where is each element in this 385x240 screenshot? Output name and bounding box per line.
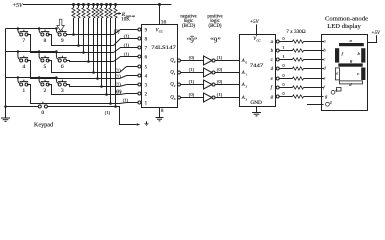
svg-text:“9”: “9” bbox=[210, 36, 220, 45]
resistor 330ohm segment b bbox=[293, 49, 304, 52]
wire overbar bbox=[190, 35, 194, 37]
svg-text:A: A bbox=[241, 59, 245, 64]
wire key8 output drop bbox=[48, 35, 79, 46]
wire dp stub bbox=[307, 104, 324, 106]
svg-text:(1): (1) bbox=[115, 67, 121, 72]
decimal point square bbox=[337, 88, 342, 92]
switch key 1 bbox=[20, 81, 29, 83]
switch key 6 bbox=[58, 57, 67, 59]
svg-text:9: 9 bbox=[61, 38, 64, 44]
wire resistor to display d bbox=[304, 68, 324, 70]
inverter U3 bbox=[204, 80, 213, 89]
svg-text:10K: 10K bbox=[121, 18, 130, 23]
wire segment e bbox=[279, 78, 292, 80]
pin output Q0 bubble bbox=[178, 59, 181, 62]
op IC 7447 decoder bbox=[240, 35, 276, 107]
svg-text:LED display: LED display bbox=[327, 23, 361, 30]
svg-text:3: 3 bbox=[246, 97, 248, 101]
node junction line 8 bbox=[77, 44, 80, 47]
wire resistor to display g bbox=[304, 96, 324, 98]
svg-text:Keypad: Keypad bbox=[34, 121, 54, 128]
wire inverter 0 out bbox=[215, 60, 240, 62]
wire 147 GND pin 8 bbox=[159, 108, 161, 118]
resistor 330ohm segment e bbox=[293, 77, 304, 80]
svg-text:0: 0 bbox=[282, 63, 285, 68]
pin input 8 bubble bbox=[138, 37, 141, 40]
resistor Rpullup9 10K bbox=[110, 5, 112, 8]
svg-text:b: b bbox=[271, 49, 274, 54]
wire encoder input line 4 bbox=[97, 18, 99, 79]
svg-text:g: g bbox=[325, 94, 328, 99]
segment d off bbox=[339, 81, 362, 84]
svg-text:(1): (1) bbox=[105, 110, 111, 115]
resistor Rpullup1 10K bbox=[73, 5, 75, 8]
pin input 3 bubble bbox=[138, 83, 141, 86]
svg-text:3: 3 bbox=[145, 83, 148, 88]
ground keypad bbox=[1, 117, 10, 119]
wire encoder input line 6 bbox=[88, 18, 90, 62]
svg-text:7447: 7447 bbox=[250, 63, 264, 69]
wire keypad ground bus bbox=[5, 29, 7, 119]
wire encoder input line 1 bbox=[110, 18, 112, 104]
svg-text:4: 4 bbox=[22, 64, 25, 70]
svg-text:(BCD): (BCD) bbox=[208, 24, 221, 29]
wire key9 output bbox=[67, 34, 74, 36]
wire keypad row bus bbox=[6, 77, 57, 79]
wire resistor to display c bbox=[304, 59, 324, 61]
svg-text:a: a bbox=[323, 39, 326, 44]
node junction line 4 bbox=[96, 77, 99, 80]
svg-text:c: c bbox=[357, 71, 359, 76]
inverter U4 bbox=[204, 93, 213, 102]
arrow key0 wire end bbox=[137, 123, 141, 126]
wire 74LS147 Vcc pin 16 bbox=[159, 5, 161, 25]
svg-text:(1): (1) bbox=[124, 52, 130, 57]
node row bus dots bbox=[17, 76, 58, 79]
ground 7447 bbox=[252, 112, 261, 114]
svg-text:7: 7 bbox=[22, 38, 25, 44]
wire key3 output drop bbox=[66, 85, 102, 87]
pin input 4 bubble bbox=[138, 74, 141, 77]
svg-text:4: 4 bbox=[145, 74, 148, 79]
resistor Rpullup5 10K bbox=[93, 5, 95, 8]
resistor 330ohm segment f bbox=[293, 86, 304, 89]
segment b lit bbox=[361, 48, 365, 62]
svg-text:(1): (1) bbox=[124, 43, 130, 48]
LED symbol upper bbox=[331, 90, 335, 94]
svg-text:7 x 330Ω: 7 x 330Ω bbox=[286, 29, 306, 35]
svg-text:“9”: “9” bbox=[187, 36, 197, 45]
wire +5V rail bbox=[23, 4, 172, 6]
pin input 7 bubble bbox=[138, 46, 141, 49]
svg-text:5: 5 bbox=[44, 64, 47, 70]
svg-text:CC: CC bbox=[257, 38, 262, 42]
svg-text:(1): (1) bbox=[123, 98, 129, 103]
svg-text:(1): (1) bbox=[115, 81, 121, 86]
svg-text:0: 0 bbox=[282, 36, 285, 41]
switch key 7 bbox=[20, 31, 29, 33]
segment a lit bbox=[339, 43, 364, 46]
svg-text:8: 8 bbox=[44, 38, 47, 44]
wire resistor to display b bbox=[304, 50, 324, 52]
arrow key press indicator bbox=[57, 19, 65, 31]
wire encoder input line 5 bbox=[93, 18, 95, 73]
node junction line 7 bbox=[82, 51, 85, 54]
svg-text:(1): (1) bbox=[217, 92, 223, 97]
resistor 330ohm segment c bbox=[293, 58, 304, 61]
svg-text:a: a bbox=[271, 40, 274, 45]
svg-text:3: 3 bbox=[174, 97, 176, 101]
segment g lit bbox=[338, 63, 362, 66]
wire resistor to display f bbox=[304, 87, 324, 89]
svg-text:0: 0 bbox=[174, 60, 176, 64]
svg-text:e: e bbox=[336, 71, 338, 76]
svg-text:d: d bbox=[323, 66, 326, 71]
svg-text:1: 1 bbox=[145, 101, 148, 106]
svg-text:b: b bbox=[358, 51, 361, 56]
switch key 4 bbox=[20, 57, 29, 59]
ground key0 target symbol bbox=[144, 121, 148, 125]
svg-text:A: A bbox=[241, 71, 245, 76]
switch key 3 bbox=[58, 81, 67, 83]
svg-text:3: 3 bbox=[61, 88, 64, 94]
svg-text:6: 6 bbox=[145, 55, 148, 60]
wire keypad row bus bbox=[6, 28, 57, 30]
wire Q2 to inverter bbox=[180, 84, 203, 86]
switch key 8 bbox=[41, 31, 50, 33]
svg-text:(1): (1) bbox=[217, 55, 223, 60]
svg-text:(1): (1) bbox=[116, 88, 122, 93]
wire key0 output bbox=[47, 107, 136, 125]
svg-text:(0): (0) bbox=[217, 67, 223, 72]
wire 7447 Vcc bbox=[256, 24, 258, 35]
pin input 2 bubble bbox=[138, 92, 141, 95]
svg-text:a: a bbox=[350, 38, 353, 43]
wire resistor to display e bbox=[304, 78, 324, 80]
wire 7447 GND bbox=[256, 107, 258, 113]
switch key 0 bbox=[38, 103, 47, 105]
resistor Rpullup10 10K bbox=[115, 5, 117, 8]
svg-text:(BCD): (BCD) bbox=[182, 24, 195, 29]
node junction line 1 bbox=[109, 102, 112, 105]
svg-text:c: c bbox=[271, 58, 274, 63]
svg-text:(0): (0) bbox=[114, 30, 120, 35]
wire segment f bbox=[279, 87, 292, 89]
wire segment d bbox=[279, 68, 292, 70]
node row bus dots bbox=[17, 27, 58, 30]
pin output Q3 bubble bbox=[178, 96, 181, 99]
wire encoder input line 8 bbox=[78, 18, 80, 46]
wire segment c bbox=[279, 59, 292, 61]
pin input 1 bubble bbox=[138, 101, 141, 104]
svg-text:0: 0 bbox=[282, 82, 285, 87]
svg-text:(1): (1) bbox=[189, 79, 195, 84]
LED symbol lower (dp) bbox=[326, 102, 330, 106]
wire Q1 to inverter bbox=[180, 72, 203, 74]
node rail junctions bbox=[72, 3, 161, 6]
wire key4 output drop bbox=[27, 61, 98, 79]
segment f lit bbox=[335, 48, 339, 62]
segment e off bbox=[335, 68, 339, 80]
inverter U1 bbox=[204, 56, 213, 65]
svg-text:2: 2 bbox=[44, 88, 47, 94]
svg-text:8: 8 bbox=[145, 37, 148, 42]
svg-text:f: f bbox=[323, 85, 325, 90]
wire Q3 to inverter bbox=[180, 97, 203, 99]
pin input 5 bubble bbox=[138, 65, 141, 68]
svg-text:2: 2 bbox=[246, 84, 248, 88]
svg-text:A: A bbox=[241, 96, 245, 101]
op IC 74LS147 priority encoder bbox=[142, 25, 178, 108]
node key0 column junction bbox=[114, 105, 117, 108]
svg-text:74LS147: 74LS147 bbox=[151, 45, 176, 51]
wire key5 output drop bbox=[48, 61, 94, 73]
switch key 9 bbox=[58, 31, 67, 33]
svg-text:d: d bbox=[349, 82, 352, 87]
pin input 6 bubble bbox=[138, 55, 141, 58]
segment c lit bbox=[361, 68, 365, 81]
node junction line 5 bbox=[92, 71, 95, 74]
svg-text:d: d bbox=[271, 67, 274, 72]
resistor Rpullup3 10K bbox=[83, 5, 85, 8]
svg-text:0: 0 bbox=[41, 110, 44, 116]
wire segment g bbox=[279, 96, 292, 98]
svg-text:(0): (0) bbox=[189, 55, 195, 60]
svg-text:0: 0 bbox=[246, 60, 248, 64]
resistor Rpullup2 10K bbox=[78, 5, 80, 8]
wire display +5V bbox=[368, 35, 377, 42]
wire encoder input line 3 bbox=[101, 18, 103, 87]
pin output Q1 bubble bbox=[178, 71, 181, 74]
node junction line 6 bbox=[87, 60, 90, 63]
wire segment a bbox=[279, 41, 292, 43]
svg-text:(0): (0) bbox=[217, 79, 223, 84]
resistor Rpullup6 10K bbox=[97, 5, 99, 8]
inverter U2 bbox=[204, 68, 213, 77]
resistor Rpullup7 10K bbox=[101, 5, 103, 8]
svg-text:7: 7 bbox=[145, 46, 148, 51]
node junction line 3 bbox=[100, 85, 103, 88]
svg-text:(1): (1) bbox=[189, 67, 195, 72]
svg-text:+5V: +5V bbox=[12, 3, 24, 9]
wire Q0 to inverter bbox=[180, 60, 203, 62]
svg-text:+5V: +5V bbox=[250, 20, 260, 25]
svg-text:1: 1 bbox=[282, 54, 285, 59]
svg-text:1: 1 bbox=[282, 45, 285, 50]
resistor 330ohm segment a bbox=[293, 40, 304, 43]
svg-text:8: 8 bbox=[161, 109, 164, 114]
svg-text:CC: CC bbox=[159, 30, 164, 34]
svg-text:g: g bbox=[350, 58, 353, 63]
arrow pointing at resistor bank bbox=[118, 13, 121, 15]
pin output Q2 bubble bbox=[178, 83, 181, 86]
svg-text:b: b bbox=[323, 48, 326, 53]
wire encoder input line 9 bbox=[73, 18, 75, 35]
svg-text:1: 1 bbox=[22, 88, 25, 94]
pin input 9 bubble bbox=[138, 28, 141, 31]
svg-text:5: 5 bbox=[145, 65, 148, 70]
wire key6 output drop bbox=[66, 61, 89, 62]
svg-text:6: 6 bbox=[61, 64, 64, 70]
wire key2 output drop bbox=[48, 85, 107, 95]
svg-text:c: c bbox=[323, 57, 325, 62]
svg-text:e: e bbox=[323, 76, 325, 81]
svg-text:f: f bbox=[271, 86, 273, 91]
svg-text:f: f bbox=[342, 51, 344, 56]
svg-text:A: A bbox=[241, 83, 245, 88]
svg-text:Common-anode: Common-anode bbox=[325, 16, 368, 23]
svg-text:0: 0 bbox=[282, 91, 285, 96]
svg-text:2: 2 bbox=[174, 84, 176, 88]
wire encoder input line 2 bbox=[106, 18, 108, 95]
wire inverter 2 out bbox=[215, 84, 240, 86]
wire segment b bbox=[279, 50, 292, 52]
svg-text:1: 1 bbox=[174, 72, 176, 76]
resistor 330ohm segment d bbox=[293, 67, 304, 70]
svg-text:g: g bbox=[271, 95, 274, 100]
node key0 bus junction bbox=[4, 105, 7, 108]
wire inverter 1 out bbox=[215, 72, 240, 74]
node junction line 2 bbox=[105, 93, 108, 96]
svg-text:1: 1 bbox=[246, 72, 248, 76]
node junction line 9 bbox=[72, 33, 75, 36]
wire key0 pullup column bbox=[115, 18, 117, 107]
svg-text:9: 9 bbox=[145, 28, 148, 33]
svg-text:(0): (0) bbox=[189, 92, 195, 97]
switch key 2 bbox=[41, 81, 50, 83]
op LED display box bbox=[322, 35, 368, 111]
switch key 5 bbox=[41, 57, 50, 59]
wire resistor to display a bbox=[304, 41, 324, 43]
resistor 330ohm segment g bbox=[293, 95, 304, 98]
wire encoder input line 7 bbox=[83, 18, 85, 53]
wire inverter 3 out bbox=[215, 97, 240, 99]
ground 74LS147 bbox=[156, 117, 164, 119]
svg-text:GND: GND bbox=[250, 101, 262, 106]
svg-text:(1): (1) bbox=[115, 73, 121, 78]
svg-text:(1): (1) bbox=[124, 34, 130, 39]
wire key7 output drop bbox=[27, 35, 84, 53]
wire key1 output drop bbox=[27, 85, 111, 104]
wire keypad row bus bbox=[6, 51, 57, 53]
node row bus dots bbox=[17, 50, 58, 53]
resistor Rpullup4 10K bbox=[88, 5, 90, 8]
svg-text:e: e bbox=[271, 77, 274, 82]
svg-text:2: 2 bbox=[145, 92, 148, 97]
wire key0 left to bus bbox=[6, 106, 39, 108]
svg-text:0: 0 bbox=[282, 73, 285, 78]
resistor Rpullup8 10K bbox=[106, 5, 108, 8]
